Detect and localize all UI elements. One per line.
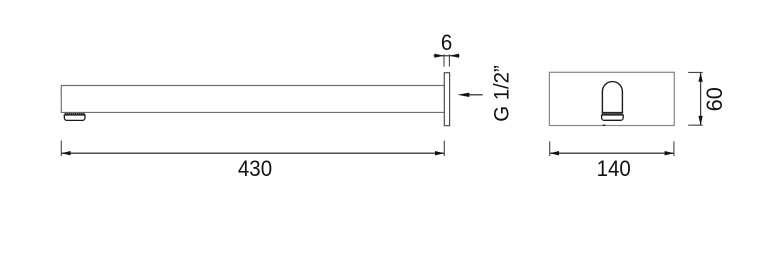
svg-text:140: 140 [597,158,631,182]
svg-text:6: 6 [441,32,452,56]
svg-text:G 1/2”: G 1/2” [490,65,513,122]
svg-text:430: 430 [238,158,272,182]
svg-text:60: 60 [702,87,727,111]
